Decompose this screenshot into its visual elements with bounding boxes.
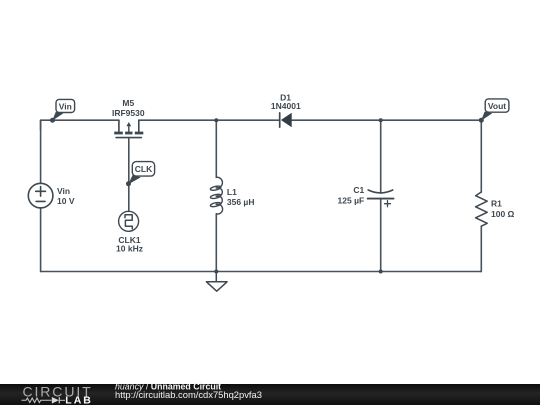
wire right vertical upper (corner to R1 top) bbox=[480, 120, 482, 192]
wire top-left from Vin corner to M5 source bbox=[41, 120, 119, 130]
svg-text:CLK: CLK bbox=[135, 164, 153, 174]
svg-text:1N4001: 1N4001 bbox=[271, 101, 301, 111]
svg-text:10 kHz: 10 kHz bbox=[116, 243, 143, 253]
svg-text:Vin: Vin bbox=[57, 186, 70, 196]
wire C1 branch lower bbox=[380, 199, 382, 272]
label Vin 10 V bbox=[57, 186, 75, 206]
svg-text:356 µH: 356 µH bbox=[227, 197, 255, 207]
label CLK1 10 kHz bbox=[116, 235, 143, 253]
svg-text:Vout: Vout bbox=[488, 101, 506, 111]
wire bottom rail bbox=[41, 271, 482, 273]
resistor R1 bbox=[476, 192, 488, 226]
clock source CLK1 10 kHz bbox=[119, 211, 139, 231]
flag CLK bbox=[126, 162, 155, 187]
label C1 125 uF bbox=[338, 185, 365, 205]
footer bar bbox=[0, 384, 540, 405]
svg-text:LAB: LAB bbox=[65, 394, 93, 405]
diode D1 1N4001 bbox=[280, 113, 292, 128]
label M5 IRF9530 bbox=[112, 98, 145, 118]
wire left vertical upper (corner to V1 top) bbox=[40, 120, 42, 183]
wire L1 branch lower bbox=[215, 214, 217, 272]
svg-text:L1: L1 bbox=[227, 187, 237, 197]
CircuitLab logo bbox=[22, 383, 93, 405]
node junction C1 bottom bbox=[379, 270, 383, 274]
svg-text:C1: C1 bbox=[353, 185, 364, 195]
node junction ground/bottom rail bbox=[214, 270, 218, 274]
transistor M5 IRF9530 (PMOS) bbox=[114, 120, 143, 137]
inductor L1 bbox=[210, 177, 223, 214]
wire L1 branch upper bbox=[215, 120, 217, 177]
wire left vertical lower (V1 bottom to bottom rail) bbox=[40, 208, 42, 272]
node junction C1 top bbox=[379, 118, 383, 122]
flag Vin bbox=[50, 99, 75, 122]
svg-text:Vin: Vin bbox=[59, 102, 72, 112]
svg-text:10 V: 10 V bbox=[57, 196, 75, 206]
flag Vout bbox=[479, 99, 509, 123]
wire right vertical lower (R1 bottom to bottom rail) bbox=[480, 226, 482, 271]
label L1 356 uH bbox=[227, 187, 255, 207]
svg-text:100 Ω: 100 Ω bbox=[491, 209, 515, 219]
svg-text:R1: R1 bbox=[491, 199, 502, 209]
svg-text:125 µF: 125 µF bbox=[338, 196, 365, 206]
voltage source V1 "Vin 10 V" bbox=[28, 183, 53, 208]
node junction L1 top bbox=[214, 118, 218, 122]
label D1 1N4001 bbox=[271, 93, 301, 111]
wire top right (D1 anode to Vout corner) bbox=[292, 119, 481, 121]
svg-text:http://circuitlab.com/cdx75hq2: http://circuitlab.com/cdx75hq2pvfa3 bbox=[115, 389, 262, 400]
label R1 100 ohm bbox=[491, 199, 515, 219]
ground bbox=[206, 272, 227, 292]
wire top middle (M5 drain to D1 cathode) bbox=[139, 119, 280, 121]
wire C1 branch upper bbox=[380, 120, 382, 193]
capacitor C1 125 uF (polarized) bbox=[368, 190, 394, 207]
svg-text:IRF9530: IRF9530 bbox=[112, 108, 145, 118]
svg-text:M5: M5 bbox=[122, 98, 134, 108]
wire M5 gate to CLK1 bbox=[128, 138, 130, 211]
